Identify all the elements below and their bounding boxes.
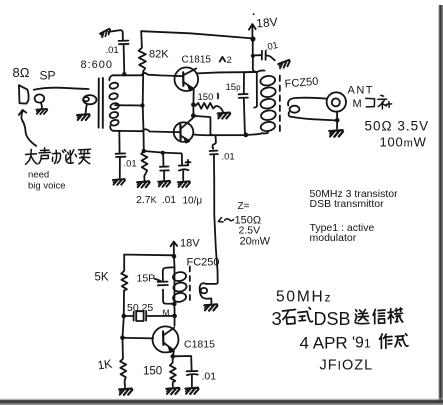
resistor R2 150 <box>196 103 223 112</box>
wire ground to C1 <box>109 30 123 40</box>
capacitor C7 15p <box>243 72 245 93</box>
speaker SP <box>19 85 29 103</box>
ground G3 (top left cap) <box>100 28 112 37</box>
transistor Q1 C1815 <box>175 67 199 91</box>
wire bias row <box>144 151 182 153</box>
wire carrier injection <box>206 178 218 284</box>
node FCZ50 bottom <box>243 133 248 138</box>
wire +18V rail <box>141 31 252 38</box>
speck <box>253 13 255 15</box>
ground G6 <box>204 304 217 310</box>
svg-text:FC250: FC250 <box>187 257 220 269</box>
svg-text:Z=: Z= <box>238 201 250 212</box>
svg-text:18V: 18V <box>180 238 200 250</box>
wire collector node to bottom line <box>194 116 213 135</box>
resistor R6 1K <box>120 338 126 388</box>
kanji ishi <box>283 310 296 325</box>
transformer T1 primary loop <box>83 95 96 104</box>
kanji shin <box>373 310 385 324</box>
wire center tap <box>115 104 142 106</box>
ground G5 <box>218 113 231 119</box>
svg-text:2.7K: 2.7K <box>136 194 157 206</box>
node osc base <box>120 335 125 340</box>
wire loop to ground G2 <box>86 104 87 113</box>
wire Q1 collector to FCZ50 top <box>197 72 257 73</box>
svg-text:100mW: 100mW <box>380 135 427 150</box>
svg-text:.01: .01 <box>162 195 176 206</box>
kana ga <box>52 150 65 164</box>
wire Q2 to FCZ50 bottom <box>193 133 262 135</box>
capacitor C4 .01 under transformer <box>118 131 120 153</box>
capacitor C5 .01 bias <box>162 153 164 166</box>
svg-text:15P: 15P <box>137 273 156 285</box>
svg-text:DSB: DSB <box>314 309 351 329</box>
power 18V oscillator <box>173 243 175 255</box>
svg-text:.01: .01 <box>264 40 279 54</box>
ground G12 <box>166 388 179 394</box>
svg-text:C1815: C1815 <box>184 339 215 351</box>
resistor R4 5K <box>121 255 127 316</box>
svg-text:need: need <box>28 170 49 181</box>
wire speaker to transformer <box>34 88 89 90</box>
svg-text:4 APR: 4 APR <box>300 334 348 353</box>
resistor R3 2.7K <box>141 151 147 180</box>
capacitor C1 .01 <box>119 40 129 42</box>
ground G8 <box>137 181 150 187</box>
node top winding <box>122 72 126 76</box>
page shadow bottom edge <box>0 398 443 405</box>
svg-text:M: M <box>353 98 362 110</box>
node bias cap <box>161 151 165 155</box>
svg-text:DSB transmittor: DSB transmittor <box>310 198 385 210</box>
svg-text:15p: 15p <box>226 82 242 93</box>
transistor Q3 C1815 <box>153 326 179 352</box>
node crystal right <box>172 314 177 319</box>
node osc rail <box>172 254 177 259</box>
wire ANT to ground <box>336 112 338 120</box>
wire base lead <box>123 337 154 340</box>
node 18V top <box>250 36 255 41</box>
wire osc rail <box>124 254 174 257</box>
ground G9 <box>158 181 170 187</box>
node center tap <box>140 103 144 107</box>
node C2 tap <box>251 54 255 58</box>
power +18V top <box>251 26 253 37</box>
dashed line FCZ50 <box>279 76 281 132</box>
svg-text:modulator: modulator <box>310 232 357 244</box>
svg-text:JFIOZL: JFIOZL <box>320 358 374 374</box>
kanji ki <box>388 308 403 324</box>
wire emitter to C9 <box>173 356 192 370</box>
svg-text:10/μ: 10/μ <box>183 196 203 207</box>
node bias divider <box>142 149 146 153</box>
speaker terminal loop <box>35 94 45 102</box>
wire Q1 emitter down <box>192 89 194 104</box>
wire emitter node <box>172 351 175 356</box>
svg-text:FCZ50: FCZ50 <box>284 76 319 91</box>
kanji dai <box>26 150 38 165</box>
inductor FCZ50 secondary <box>288 98 296 106</box>
node ANT ground <box>335 118 340 123</box>
svg-text:.01: .01 <box>106 45 119 56</box>
transformer T1 core <box>98 79 100 128</box>
wire loop to ground <box>210 299 212 304</box>
ground G4 <box>278 60 291 69</box>
svg-text:8Ω: 8Ω <box>13 65 30 80</box>
node osc emitter <box>171 354 176 359</box>
capacitor C6 10u electrolytic <box>180 153 183 164</box>
svg-text:big voice: big voice <box>28 181 66 192</box>
svg-text:'91: '91 <box>352 335 371 352</box>
kanji hitsu <box>66 150 77 164</box>
svg-text:2: 2 <box>227 55 232 66</box>
kanji you <box>79 149 91 164</box>
svg-text:3: 3 <box>272 308 282 329</box>
ground G13 <box>185 388 198 394</box>
katakana ko <box>366 98 375 107</box>
ground G10 <box>178 181 190 187</box>
wire node to Q2 <box>192 105 194 116</box>
inductor FCZ50 primary <box>244 70 264 72</box>
ground G1 <box>41 103 42 109</box>
wire bias vertical <box>143 71 144 151</box>
svg-text:M: M <box>163 308 170 318</box>
inductor FC250 <box>163 267 175 281</box>
svg-text:1K: 1K <box>97 357 113 373</box>
kanji okuru <box>355 310 369 324</box>
wire osc vertical <box>173 256 176 326</box>
ground G11 <box>329 130 343 137</box>
wire 18V down <box>252 39 254 56</box>
svg-text:.01: .01 <box>222 152 235 163</box>
kanji shiki <box>298 308 313 322</box>
svg-text:.01: .01 <box>124 159 137 170</box>
kanji koe <box>39 148 51 164</box>
svg-text:8:600: 8:600 <box>81 59 114 71</box>
capacitor C2 .01 <box>253 54 261 56</box>
wire secondary bottom to Q2 base <box>113 129 173 132</box>
svg-text:150: 150 <box>198 92 214 103</box>
ground G14 <box>119 389 132 395</box>
node FC250 bottom <box>172 302 177 307</box>
transistor Q2 C1815 <box>174 122 194 142</box>
svg-text:50MHz: 50MHz <box>276 289 332 306</box>
transformer T1 secondary winding <box>109 75 112 80</box>
inductor FC250 secondary loop <box>200 283 212 299</box>
svg-text:.01: .01 <box>202 371 217 383</box>
resistor R1 82K <box>139 31 146 71</box>
svg-text:82K: 82K <box>149 49 169 61</box>
svg-text:ANT: ANT <box>348 85 375 97</box>
wire to FCZ50 top <box>253 56 257 72</box>
node Q2 collector <box>191 113 196 118</box>
connector ANT <box>327 92 346 111</box>
dashed line FC250 <box>189 267 191 303</box>
ground G7 <box>113 179 125 185</box>
svg-text:SP: SP <box>40 69 56 83</box>
svg-text:50Ω 3.5V: 50Ω 3.5V <box>365 119 430 134</box>
crystal X1 <box>122 314 127 319</box>
resistor R5 150 osc <box>170 357 176 387</box>
kanji saku <box>380 334 393 349</box>
capacitor C3 .01 carrier <box>213 136 216 149</box>
svg-text:50.25: 50.25 <box>127 302 153 314</box>
svg-text:150: 150 <box>143 366 162 378</box>
arrow big voice <box>21 111 36 146</box>
svg-text:5K: 5K <box>95 272 109 284</box>
node emitters <box>191 103 196 108</box>
capacitor C8 15p osc <box>158 281 168 283</box>
svg-text:18V: 18V <box>256 15 278 30</box>
wire osc base branch <box>123 316 124 338</box>
capacitor C9 .01 osc <box>187 370 198 372</box>
wire secondary top to Q1 base <box>113 73 175 76</box>
svg-text:C1815: C1815 <box>182 55 212 66</box>
kanji sei <box>395 334 408 347</box>
katakana ne <box>378 95 392 109</box>
svg-text:20mW: 20mW <box>240 236 271 248</box>
arrow to wire <box>218 218 233 222</box>
page shadow right edge <box>437 5 443 405</box>
